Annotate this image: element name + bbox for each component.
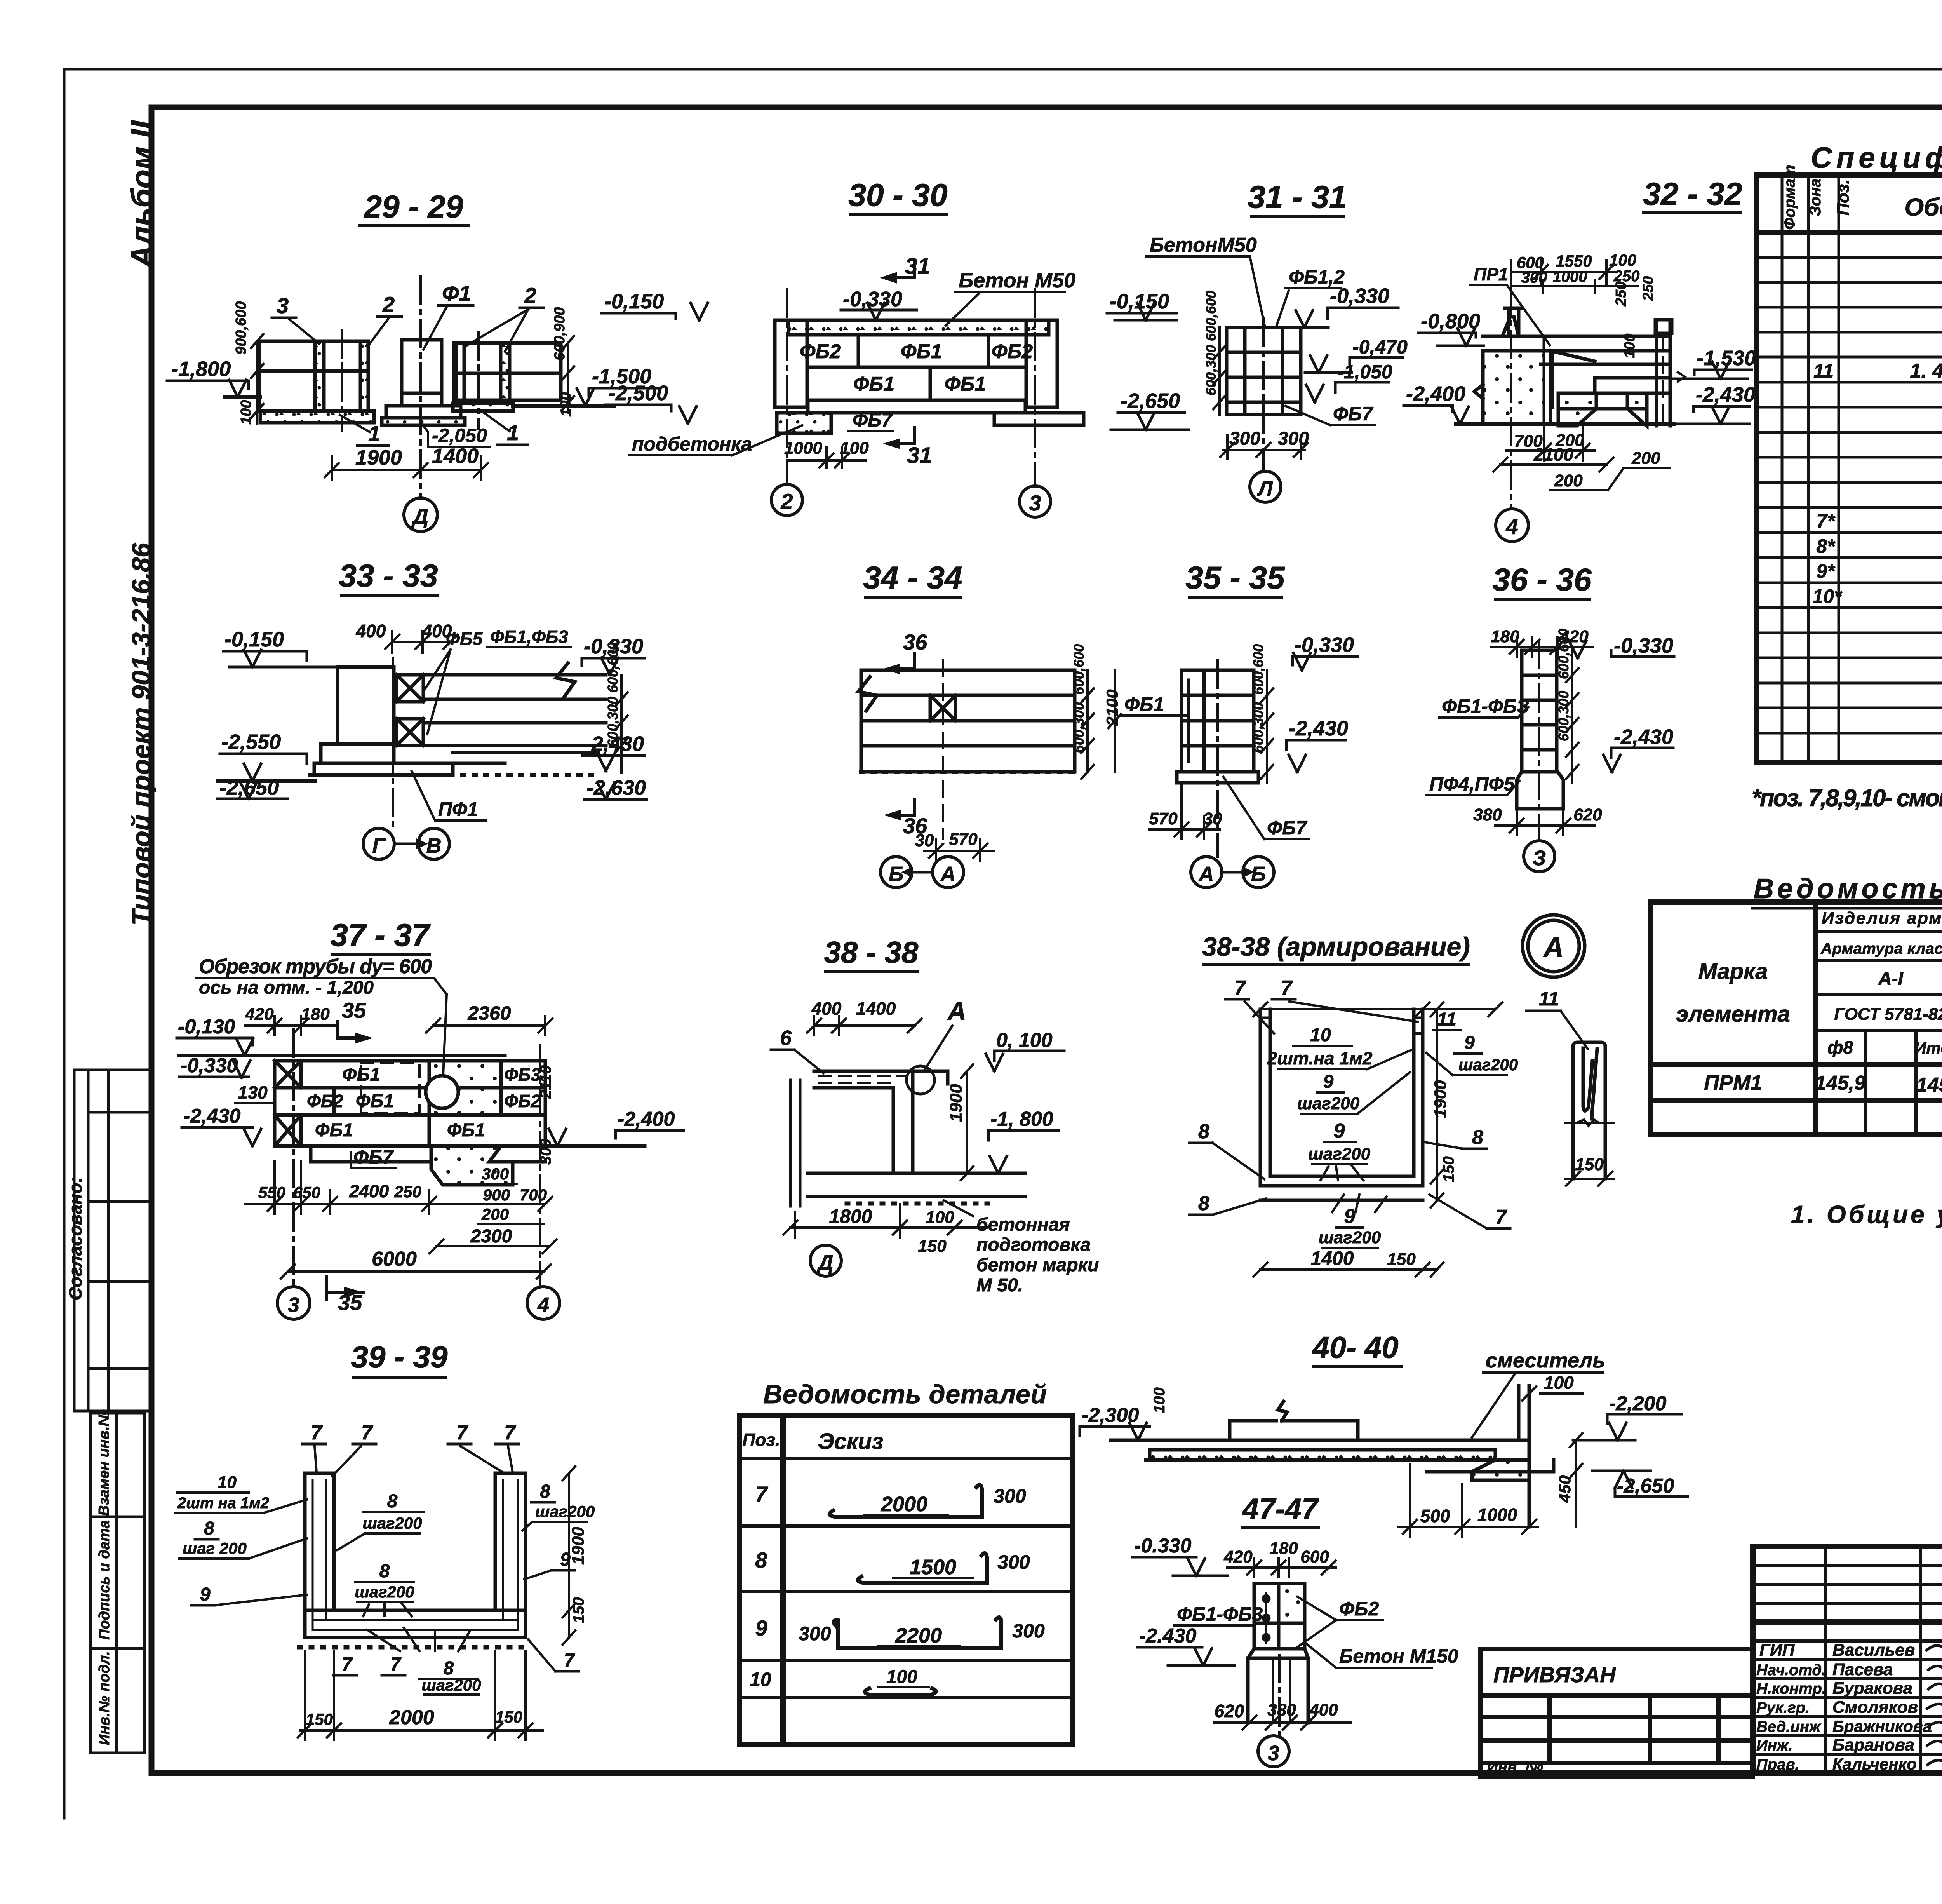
section 35-35 title (1185, 560, 1285, 597)
svg-text:200: 200 (1631, 449, 1660, 468)
svg-text:380: 380 (1267, 1700, 1296, 1719)
section 30-30 axes (787, 289, 1035, 486)
svg-text:Поз.: Поз. (1834, 179, 1853, 215)
svg-text:180: 180 (1491, 627, 1519, 646)
section 37-37 bottom dim chain (245, 1162, 552, 1214)
svg-text:-2,650: -2,650 (1121, 389, 1180, 413)
svg-text:-2.430: -2.430 (1139, 1625, 1197, 1647)
svg-text:3: 3 (1029, 491, 1041, 515)
section 30-30 title (848, 178, 947, 214)
center block Ф1 (402, 340, 442, 393)
svg-text:150: 150 (918, 1237, 947, 1256)
svg-text:ФБ7: ФБ7 (853, 409, 893, 431)
svg-text:900: 900 (483, 1186, 510, 1204)
svg-text:-0,150: -0,150 (1110, 290, 1169, 313)
svg-text:37 - 37: 37 - 37 (330, 918, 431, 953)
svg-text:7*: 7* (1816, 510, 1836, 532)
svg-text:2000: 2000 (881, 1493, 927, 1516)
svg-text:ФБ1: ФБ1 (853, 373, 894, 395)
svg-text:600,600: 600,600 (1556, 629, 1571, 679)
section 37-37 top dims 420 180 35 (245, 1016, 338, 1035)
svg-text:9*: 9* (1816, 560, 1836, 582)
left margin: Согласовано block (74, 1070, 151, 1411)
section 39-39 U walls (299, 1473, 532, 1647)
svg-text:-0.330: -0.330 (1134, 1535, 1192, 1557)
svg-text:7: 7 (1281, 977, 1293, 999)
svg-text:ФБ1: ФБ1 (945, 373, 986, 395)
svg-text:Нач.отд.: Нач.отд. (1756, 1662, 1826, 1679)
svg-text:шаг 200: шаг 200 (183, 1539, 247, 1557)
section 31-31 bottom dims (1220, 435, 1308, 458)
svg-text:7: 7 (311, 1421, 323, 1444)
svg-text:Б: Б (889, 862, 903, 886)
svg-text:1000: 1000 (1477, 1505, 1517, 1525)
svg-text:Б: Б (1251, 862, 1266, 886)
section 36-36 bottom dims 380 620 (1495, 809, 1594, 835)
section 38-38 dim 1900 (961, 1064, 973, 1180)
svg-text:бетонная: бетонная (976, 1214, 1070, 1235)
detail 10 sketch (865, 1688, 936, 1695)
section 40-40 dim 450 (1570, 1433, 1582, 1527)
svg-text:Типовой проект 901-3-216.86: Типовой проект 901-3-216.86 (127, 542, 156, 926)
svg-text:35: 35 (342, 998, 366, 1023)
svg-text:9: 9 (1323, 1071, 1334, 1092)
svg-text:-0,130: -0,130 (178, 1016, 235, 1038)
svg-text:30: 30 (915, 831, 934, 850)
svg-text:Бражникова: Бражникова (1832, 1717, 1932, 1735)
svg-text:ФБ7: ФБ7 (1267, 817, 1307, 839)
detail 8 sketch (858, 1553, 987, 1583)
section 35-35 axis (1216, 660, 1219, 857)
svg-text:ФБ1: ФБ1 (447, 1120, 485, 1141)
svg-text:-2,500: -2,500 (609, 381, 668, 405)
detail mark А double circle (1523, 915, 1585, 977)
section 38-38(арм) title (1202, 932, 1470, 964)
section 33-33 wall and blocks (311, 663, 606, 775)
section 34-34 bottom dims 30 570 (924, 839, 994, 861)
svg-text:Буракова: Буракова (1832, 1679, 1912, 1698)
svg-text:-2,300: -2,300 (1082, 1404, 1139, 1427)
svg-text:Взамен инв.№: Взамен инв.№ (96, 1409, 112, 1516)
svg-text:180: 180 (1269, 1539, 1298, 1558)
svg-text:Альбом II: Альбом II (125, 120, 159, 269)
section 35-35 bottom dims 570 30 (1150, 783, 1220, 839)
svg-text:смеситель: смеситель (1486, 1349, 1605, 1372)
svg-text:6000: 6000 (372, 1248, 417, 1270)
svg-text:БетонМ50: БетонМ50 (1150, 234, 1257, 256)
svg-text:-0,150: -0,150 (224, 628, 284, 651)
section 38-38 top dims 400 1400 (807, 1016, 922, 1035)
svg-text:ФБ2: ФБ2 (307, 1091, 343, 1111)
svg-text:Ф1: Ф1 (442, 281, 471, 305)
section 36-36 level -2,430 (1603, 748, 1673, 772)
svg-text:-2,650: -2,650 (219, 776, 279, 800)
svg-text:-1,050: -1,050 (1337, 361, 1392, 383)
right column (1655, 320, 1658, 426)
svg-text:ось на отм. - 1,200: ось на отм. - 1,200 (199, 977, 374, 998)
svg-text:8: 8 (540, 1481, 550, 1502)
left margin: Альбом II (125, 120, 159, 269)
svg-text:ПФ1: ПФ1 (438, 798, 478, 820)
section 31-31 level -0,470 (1305, 355, 1403, 373)
svg-text:47-47: 47-47 (1242, 1493, 1319, 1526)
section 38-38(арм) U frame (1260, 1009, 1423, 1200)
section 35-35 right dim chain (1261, 670, 1273, 783)
section 40-40 level -2,200 (1573, 1414, 1682, 1440)
section 38-38 bottom dims 1800 100 150 (783, 1204, 987, 1237)
section 47-47 axis circle 3 (1278, 1655, 1281, 1736)
svg-text:31: 31 (907, 443, 932, 468)
section 37-37 level -0,130 (177, 1038, 505, 1056)
section 47-47 top dims 420 180 600 (1227, 1558, 1336, 1577)
svg-text:420: 420 (1223, 1547, 1253, 1566)
svg-text:ГОСТ 5781-82: ГОСТ 5781-82 (1834, 1005, 1942, 1024)
svg-text:шаг200: шаг200 (355, 1583, 414, 1601)
svg-text:7: 7 (456, 1421, 468, 1444)
section 36-36 title (1492, 562, 1592, 599)
svg-text:ф8: ф8 (1827, 1037, 1853, 1057)
svg-text:1400: 1400 (432, 444, 479, 468)
section 29-29 level -1,800 (167, 380, 249, 397)
svg-text:-0,470: -0,470 (1352, 336, 1408, 358)
left margin: Типовой проект 901-3-216.86 (127, 542, 156, 926)
specification table grid (1757, 175, 1942, 762)
svg-text:38-38 (армирование): 38-38 (армирование) (1202, 932, 1470, 962)
section 31-31 left dim chain (1213, 327, 1226, 415)
section 34-34 axis circles Б А (881, 857, 912, 888)
section 31-31 level -0,330 (1282, 308, 1398, 327)
svg-text:-2,630: -2,630 (586, 776, 646, 800)
svg-text:Эскиз: Эскиз (818, 1429, 883, 1454)
svg-text:8: 8 (204, 1518, 214, 1539)
svg-text:900,600: 900,600 (233, 301, 249, 355)
title block: main (1753, 1547, 1942, 1773)
svg-text:Бетон М50: Бетон М50 (959, 269, 1075, 292)
svg-text:шаг200: шаг200 (1297, 1094, 1360, 1113)
section 30-30 level -0,150 (601, 303, 708, 320)
section 47-47 title (1242, 1493, 1319, 1528)
svg-text:Прав.: Прав. (1756, 1756, 1799, 1773)
svg-text:-2,400: -2,400 (1406, 382, 1465, 406)
section 29-29 level -1,500 (577, 388, 660, 406)
svg-text:250: 250 (1640, 276, 1657, 301)
svg-text:600,600: 600,600 (1203, 291, 1219, 341)
svg-text:ФБ7: ФБ7 (353, 1146, 394, 1168)
section 36-36 axis circle З (1524, 841, 1555, 872)
svg-text:Поз.: Поз. (742, 1430, 780, 1450)
section 38-38 level -1,800 (988, 1131, 1058, 1173)
svg-text:ПФ4,ПФ5: ПФ4,ПФ5 (1429, 773, 1515, 795)
section 33-33 level -2,430 right (583, 754, 645, 771)
section 40-40 level -2,300 (1080, 1423, 1150, 1440)
detail 7 sketch (830, 1485, 982, 1517)
section 34-34 block (858, 670, 1075, 772)
svg-text:620: 620 (1573, 805, 1602, 824)
left block group (259, 341, 368, 411)
section 31-31 axis (1262, 319, 1265, 471)
title block: Привязан box (1481, 1649, 1753, 1776)
svg-text:9: 9 (1334, 1120, 1345, 1142)
svg-text:1550: 1550 (1556, 252, 1592, 270)
svg-text:7: 7 (1495, 1206, 1507, 1228)
svg-text:600,900: 600,900 (552, 307, 568, 361)
section 31-31 axis circle Л (1250, 471, 1281, 502)
svg-text:500: 500 (1420, 1506, 1450, 1526)
section 47-47 level -2.430 (1137, 1647, 1234, 1665)
svg-text:300: 300 (482, 1165, 509, 1183)
svg-text:ПРМ1: ПРМ1 (1704, 1071, 1762, 1094)
svg-text:31: 31 (905, 254, 930, 279)
svg-text:11: 11 (1437, 1009, 1456, 1030)
svg-text:Итого: Итого (1914, 1039, 1942, 1057)
svg-text:36 - 36: 36 - 36 (1492, 562, 1592, 598)
svg-text:1: 1 (507, 420, 519, 445)
svg-text:250: 250 (394, 1183, 421, 1201)
section 30-30 slab assembly (775, 320, 1084, 433)
svg-text:7: 7 (504, 1421, 516, 1444)
svg-text:550: 550 (258, 1183, 285, 1202)
svg-text:36: 36 (903, 630, 927, 654)
svg-text:ФБ1: ФБ1 (1124, 693, 1164, 715)
svg-text:ПРИВЯЗАН: ПРИВЯЗАН (1493, 1662, 1616, 1687)
svg-text:35 - 35: 35 - 35 (1185, 560, 1285, 596)
section 29-29 axis circle Д (404, 498, 437, 531)
svg-text:-0,800: -0,800 (1421, 310, 1480, 333)
details list table grid (740, 1415, 1073, 1744)
section 34-34 title (863, 560, 962, 597)
section 37-37 level -2,430 (182, 1127, 261, 1146)
svg-text:Д: Д (817, 1251, 834, 1274)
svg-text:2100: 2100 (1103, 690, 1121, 726)
svg-text:11: 11 (1813, 360, 1834, 382)
section 38-38 title (824, 935, 919, 971)
svg-text:-2,650: -2,650 (1617, 1475, 1674, 1497)
svg-text:-2,430: -2,430 (1696, 383, 1755, 406)
svg-text:-0,330: -0,330 (1614, 634, 1673, 657)
svg-text:Рук.гр.: Рук.гр. (1756, 1699, 1810, 1716)
svg-text:300: 300 (799, 1623, 831, 1644)
svg-text:шаг200: шаг200 (1458, 1056, 1518, 1074)
svg-text:Инв. №: Инв. № (1487, 1759, 1543, 1776)
svg-text:0, 100: 0, 100 (996, 1029, 1053, 1052)
svg-text:Инж.: Инж. (1756, 1737, 1793, 1754)
svg-text:570: 570 (949, 830, 978, 849)
svg-text:39 - 39: 39 - 39 (351, 1340, 448, 1374)
svg-text:Формат: Формат (1781, 165, 1798, 230)
svg-text:420: 420 (245, 1005, 274, 1024)
svg-text:ФБ2: ФБ2 (992, 340, 1033, 363)
svg-text:-0,330: -0,330 (181, 1054, 238, 1077)
svg-text:подготовка: подготовка (976, 1235, 1091, 1255)
svg-text:150: 150 (1440, 1156, 1457, 1182)
svg-text:300: 300 (1229, 429, 1260, 449)
svg-text:300: 300 (1012, 1620, 1045, 1642)
section 39-39 title (351, 1340, 448, 1377)
svg-text:450: 450 (1556, 1475, 1574, 1503)
svg-text:145,9: 145,9 (1916, 1074, 1942, 1096)
section 32-32 top dims (1511, 260, 1637, 293)
svg-text:7: 7 (390, 1654, 402, 1675)
svg-text:600,300: 600,300 (1250, 702, 1266, 753)
svg-text:9: 9 (755, 1616, 767, 1640)
svg-text:ФБ7: ФБ7 (1333, 403, 1373, 425)
svg-text:Л: Л (1256, 477, 1273, 500)
svg-text:620: 620 (1215, 1701, 1244, 1721)
svg-text:А: А (947, 996, 966, 1025)
svg-text:11: 11 (1539, 988, 1559, 1010)
svg-text:-2,550: -2,550 (221, 730, 281, 754)
svg-text:ПР1: ПР1 (1474, 264, 1508, 284)
section 29-29 bottom dims (325, 456, 488, 480)
svg-text:2: 2 (524, 283, 536, 308)
svg-text:Арматура класса: Арматура класса (1820, 940, 1942, 957)
section 37-37 dim 6000 (281, 1265, 551, 1279)
section 38-38 drawing (790, 1071, 1025, 1206)
svg-text:А: А (1543, 932, 1564, 963)
svg-text:600,300: 600,300 (1071, 702, 1087, 753)
svg-text:2000: 2000 (389, 1706, 434, 1729)
svg-text:100: 100 (886, 1667, 917, 1687)
svg-text:700: 700 (520, 1186, 547, 1204)
center wall double line (1543, 336, 1545, 424)
svg-text:Вед.инж: Вед.инж (1756, 1718, 1822, 1735)
svg-text:ФБ1: ФБ1 (356, 1091, 394, 1111)
svg-text:шаг200: шаг200 (362, 1514, 422, 1532)
svg-text:380: 380 (1473, 805, 1502, 824)
section 37-37 dim 2300 (430, 1239, 557, 1253)
svg-text:6: 6 (780, 1026, 792, 1050)
section 29-29 title (359, 189, 468, 225)
section 29-29 drawing (225, 340, 614, 425)
svg-text:300: 300 (997, 1551, 1030, 1573)
svg-text:шаг200: шаг200 (1308, 1144, 1371, 1164)
svg-text:Баранова: Баранова (1832, 1735, 1914, 1754)
svg-text:100: 100 (840, 439, 869, 458)
svg-text:30: 30 (1203, 809, 1222, 828)
svg-text:32 - 32: 32 - 32 (1643, 176, 1742, 212)
svg-text:ФБ2: ФБ2 (504, 1091, 541, 1111)
section 33-33 axis circles Г В (363, 828, 394, 859)
svg-text:ФБ3: ФБ3 (504, 1064, 541, 1085)
svg-text:В: В (426, 834, 442, 857)
right block group (454, 343, 561, 400)
section 35-35 level -0,330 (1293, 653, 1357, 670)
svg-text:570: 570 (1149, 809, 1178, 828)
svg-text:Кальченко: Кальченко (1832, 1755, 1917, 1773)
svg-text:1400: 1400 (1310, 1247, 1354, 1269)
svg-text:100: 100 (238, 400, 254, 425)
svg-text:300: 300 (994, 1485, 1026, 1507)
section 31-31 title (1248, 179, 1347, 217)
svg-text:ФБ5: ФБ5 (446, 629, 483, 649)
detail 9 sketch (834, 1617, 1001, 1648)
svg-text:600,300: 600,300 (605, 697, 621, 747)
ground lines (225, 395, 260, 399)
svg-text:ФБ1-ФБЗ: ФБ1-ФБЗ (1442, 695, 1529, 717)
svg-text:2шт на 1м2: 2шт на 1м2 (177, 1495, 269, 1512)
svg-text:400: 400 (1309, 1700, 1338, 1719)
svg-text:8: 8 (379, 1561, 390, 1582)
section 31-31 level -1,050 (1306, 382, 1389, 402)
svg-text:150: 150 (1387, 1250, 1416, 1269)
svg-text:-2,430: -2,430 (183, 1105, 241, 1127)
svg-text:А: А (940, 862, 956, 886)
svg-text:1. 400-15 вып.1: 1. 400-15 вып.1 (1910, 360, 1942, 382)
section 32-32 axis circle 4 (1496, 509, 1528, 542)
svg-text:-0,330: -0,330 (843, 287, 902, 311)
svg-text:38 - 38: 38 - 38 (824, 935, 919, 969)
svg-text:-2,400: -2,400 (618, 1108, 675, 1131)
svg-text:200: 200 (481, 1205, 509, 1223)
svg-text:8: 8 (755, 1548, 767, 1572)
svg-text:7: 7 (342, 1654, 353, 1675)
svg-text:10: 10 (218, 1473, 237, 1492)
svg-text:-2,050: -2,050 (432, 425, 487, 446)
svg-text:ФБ1,ФБ3: ФБ1,ФБ3 (490, 627, 568, 647)
section 35-35 level -2,430 (1286, 740, 1346, 772)
section 33-33 top dims 400 400 (385, 631, 458, 653)
svg-text:9: 9 (200, 1584, 211, 1605)
section 30-30 axis circles (771, 484, 802, 516)
svg-text:Ведомость деталей: Ведомость деталей (763, 1380, 1047, 1409)
svg-text:Смоляков: Смоляков (1832, 1698, 1918, 1717)
steel table grid (1650, 902, 1942, 1134)
svg-text:34 - 34: 34 - 34 (863, 560, 962, 596)
section 30-30 level -2,500 (605, 405, 696, 423)
svg-text:элемента: элемента (1676, 1002, 1790, 1027)
svg-text:100: 100 (1544, 1373, 1574, 1393)
svg-text:600,300: 600,300 (1203, 345, 1219, 395)
svg-text:8*: 8* (1816, 535, 1836, 557)
section 38-38 level 0,100 (986, 1051, 1064, 1071)
svg-text:бетон марки: бетон марки (976, 1255, 1099, 1275)
svg-text:7: 7 (755, 1482, 768, 1506)
svg-text:130: 130 (238, 1082, 268, 1103)
svg-text:650: 650 (293, 1183, 320, 1202)
svg-text:3: 3 (1268, 1742, 1279, 1765)
section 37-37 title (330, 918, 431, 955)
svg-text:600: 600 (1517, 253, 1544, 272)
svg-text:ФБ1: ФБ1 (315, 1120, 353, 1141)
section 31-31 level -2,650 left (1111, 413, 1189, 430)
svg-text:А: А (1198, 862, 1214, 886)
svg-text:150: 150 (570, 1597, 587, 1623)
svg-text:-0,150: -0,150 (604, 290, 664, 313)
section 34-34 right dim chain (1081, 670, 1121, 779)
svg-text:Согласовано:: Согласовано: (65, 1177, 85, 1300)
svg-text:ФБ1-ФБ3: ФБ1-ФБ3 (1177, 1603, 1263, 1625)
svg-text:ФБ1: ФБ1 (901, 340, 942, 363)
svg-text:Изделия арматурные: Изделия арматурные (1822, 909, 1942, 928)
svg-text:Обрезок трубы dу= 600: Обрезок трубы dу= 600 (199, 955, 432, 978)
svg-text:100: 100 (1609, 251, 1636, 269)
section 35-35 block column (1177, 670, 1258, 783)
section 32-32 level -0,800 (1418, 329, 1484, 346)
svg-text:-2,430: -2,430 (1289, 717, 1348, 740)
section 37-37 level -0,330 (179, 1061, 250, 1078)
svg-text:145,9: 145,9 (1815, 1072, 1865, 1094)
section 30-30 level -0,330 (841, 303, 917, 320)
svg-text:300: 300 (1278, 429, 1309, 449)
svg-text:Васильев: Васильев (1832, 1641, 1915, 1660)
svg-text:2400: 2400 (349, 1181, 389, 1201)
section 37-37 level -2,400 right (545, 1129, 684, 1146)
svg-text:А-I: А-I (1878, 969, 1904, 989)
svg-text:2: 2 (382, 292, 395, 317)
svg-text:Бетон М150: Бетон М150 (1339, 1645, 1458, 1667)
section 40-40 level -2,650 (1592, 1471, 1688, 1496)
svg-text:2300: 2300 (470, 1226, 512, 1247)
